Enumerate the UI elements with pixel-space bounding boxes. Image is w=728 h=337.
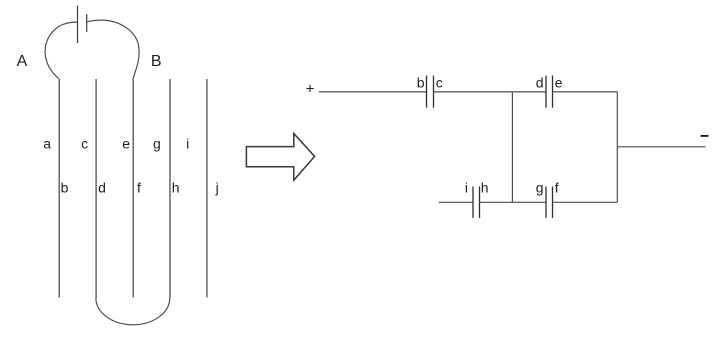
wire: arc from battery to plate 3 (terminal B side) — [87, 20, 139, 78]
svg-text:e: e — [122, 135, 130, 151]
plate 3 (faces e|f) — [132, 79, 134, 298]
wire: bottom U connecting plate 2 and plate 4 — [96, 298, 170, 325]
svg-text:i: i — [186, 135, 189, 151]
svg-text:g: g — [153, 135, 161, 151]
svg-text:a: a — [43, 135, 51, 151]
wire: node X to capacitor d|e — [512, 91, 546, 93]
svg-text:f: f — [555, 180, 559, 196]
wire: node X vertical branch — [511, 92, 513, 202]
capacitor i|h left plate — [472, 187, 474, 218]
svg-text:f: f — [137, 179, 141, 195]
svg-text:d: d — [536, 75, 544, 91]
- terminal label — [701, 135, 709, 137]
plate 1 (faces a|b) — [58, 79, 60, 298]
wire: arc from battery to plate 1 (terminal A side) — [45, 22, 77, 79]
svg-text:c: c — [81, 135, 88, 151]
plate 5 (faces i|j) — [206, 79, 208, 297]
wire: capacitor d|e to top right corner — [553, 91, 618, 93]
battery V1 short plate — [86, 14, 88, 32]
svg-text:j: j — [215, 179, 219, 195]
svg-text:+: + — [306, 81, 315, 98]
svg-text:h: h — [481, 180, 489, 196]
wire: right side vertical — [616, 92, 618, 202]
capacitor b|c right plate — [433, 76, 435, 108]
capacitor i|h right plate — [479, 187, 481, 218]
svg-text:c: c — [436, 75, 443, 91]
svg-text:h: h — [172, 179, 180, 195]
svg-text:e: e — [555, 75, 563, 91]
wire: bottom left stub to capacitor i|h — [439, 201, 473, 203]
svg-text:b: b — [61, 179, 69, 195]
plate 2 (faces c|d) — [95, 79, 97, 298]
wire: capacitor b|c to node X — [434, 91, 513, 93]
capacitor g|f right plate — [552, 187, 554, 218]
arrow (equivalence) — [246, 134, 314, 181]
wire: capacitor g|f to bottom right corner — [553, 201, 618, 203]
capacitor g|f left plate — [545, 187, 547, 218]
battery V1 long plate — [77, 6, 79, 43]
svg-text:B: B — [151, 53, 162, 70]
svg-text:g: g — [536, 180, 544, 196]
capacitor d|e left plate — [545, 76, 547, 108]
svg-text:b: b — [417, 75, 425, 91]
wire: + terminal to capacitor b|c — [319, 91, 427, 93]
svg-text:d: d — [98, 179, 106, 195]
wire: node X bottom to capacitor g|f — [512, 201, 546, 203]
capacitor b|c left plate — [426, 76, 428, 108]
svg-text:A: A — [17, 53, 28, 70]
wire: capacitor i|h to node X bottom — [480, 201, 513, 203]
svg-text:i: i — [465, 180, 468, 196]
plate 4 (faces g|h) — [169, 79, 171, 298]
capacitor d|e right plate — [552, 76, 554, 108]
wire: output to - terminal — [617, 146, 705, 148]
